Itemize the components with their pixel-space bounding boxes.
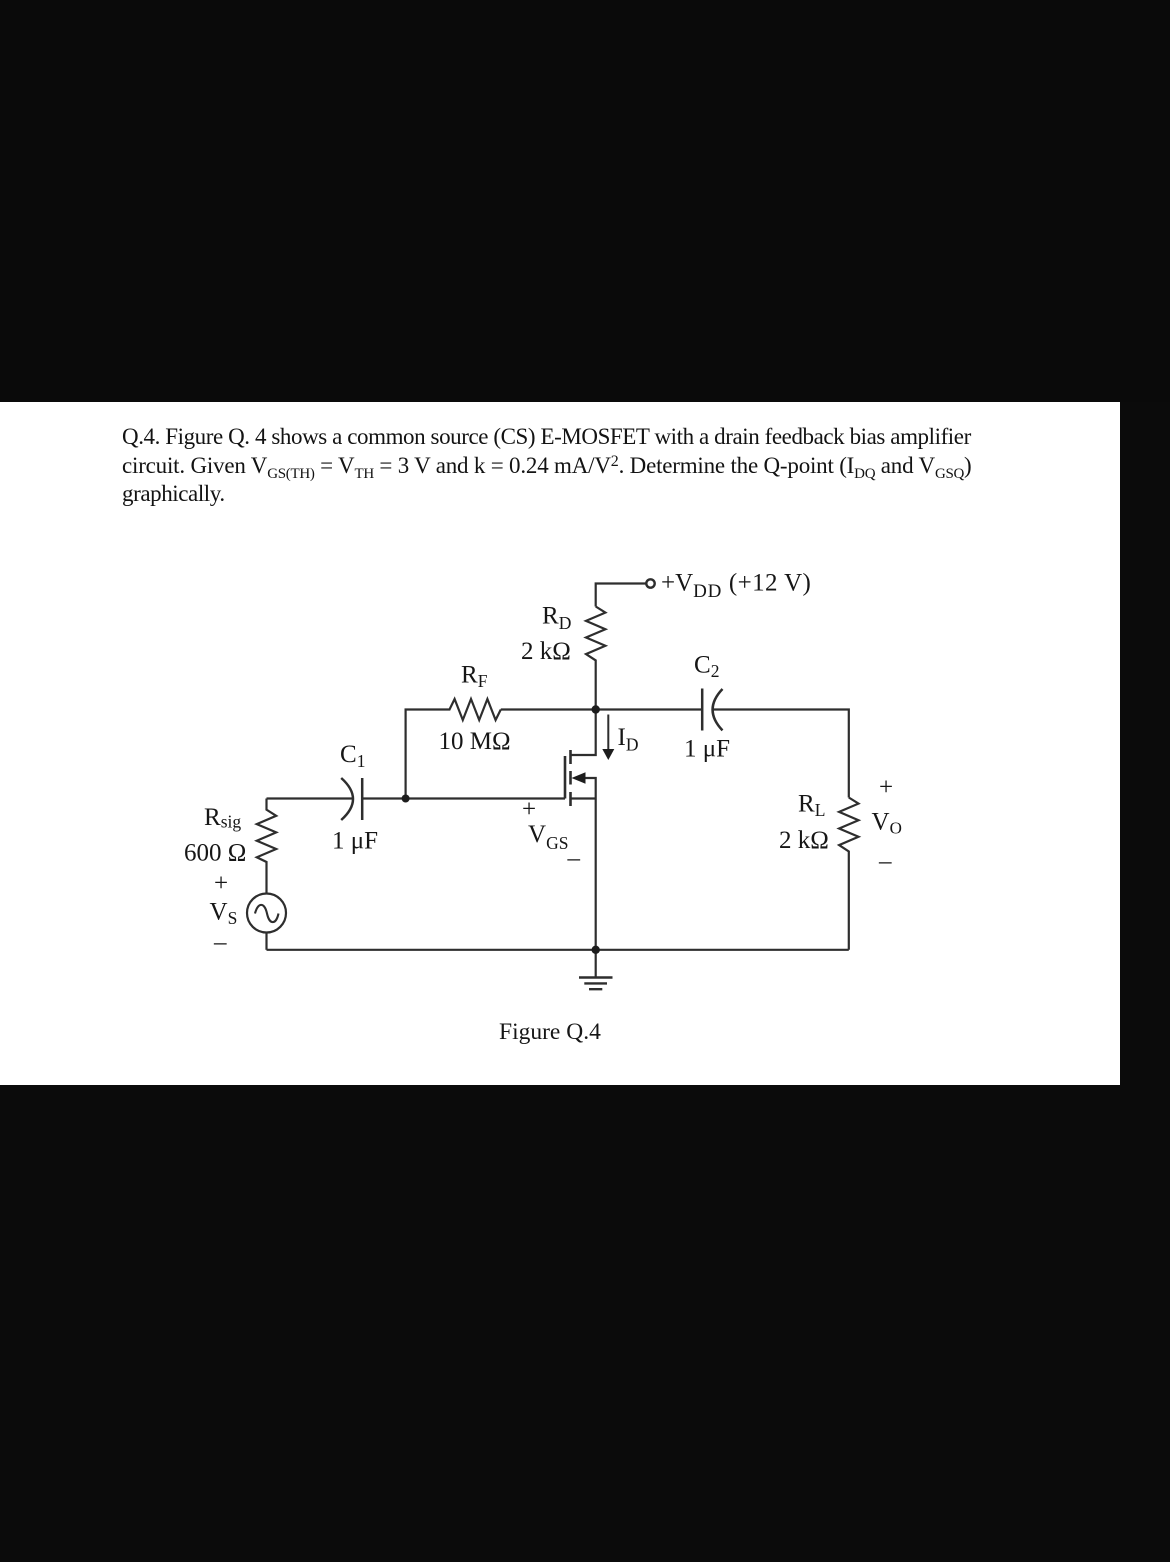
- svg-text:RF: RF: [461, 662, 488, 692]
- svg-text:2 kΩ: 2 kΩ: [779, 827, 829, 854]
- svg-text:2 kΩ: 2 kΩ: [521, 638, 571, 665]
- svg-text:C2: C2: [694, 652, 719, 682]
- svg-text:–: –: [213, 929, 227, 956]
- svg-text:Figure Q.4: Figure Q.4: [499, 1019, 601, 1045]
- svg-text:RD: RD: [542, 603, 571, 634]
- svg-text:+: +: [214, 870, 228, 897]
- svg-text:VO: VO: [872, 809, 902, 838]
- svg-text:–: –: [567, 845, 581, 872]
- svg-text:10 MΩ: 10 MΩ: [439, 728, 511, 755]
- svg-text:1 μF: 1 μF: [684, 736, 730, 763]
- svg-text:VGS: VGS: [528, 821, 568, 853]
- svg-text:1 μF: 1 μF: [332, 828, 378, 855]
- svg-text:ID: ID: [618, 724, 639, 755]
- svg-text:C1: C1: [340, 741, 365, 771]
- svg-text:+: +: [522, 796, 536, 823]
- svg-text:+VDD (+12 V): +VDD (+12 V): [661, 570, 811, 603]
- svg-text:+: +: [879, 774, 893, 801]
- svg-text:RL: RL: [798, 791, 825, 821]
- svg-text:VS: VS: [210, 899, 238, 929]
- svg-text:Rsig: Rsig: [204, 804, 241, 832]
- svg-text:600 Ω: 600 Ω: [184, 840, 246, 867]
- svg-text:–: –: [878, 848, 892, 875]
